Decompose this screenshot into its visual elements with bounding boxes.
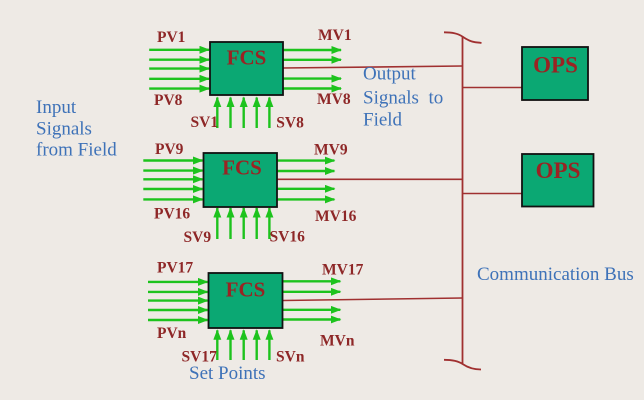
setpoint arrows SV17-SVn into FCS3 bottom — [217, 330, 269, 360]
setpoint arrows SV1-SV8 into FCS1 bottom — [217, 98, 269, 129]
output arrows MV9-MV16 from FCS2 — [277, 161, 334, 200]
svg-text:SV1: SV1 — [191, 114, 219, 131]
svg-text:Communication Bus: Communication Bus — [477, 264, 634, 285]
svg-text:MVn: MVn — [320, 333, 355, 350]
communication bus vertical line — [462, 36, 464, 364]
bus bottom terminator squiggle — [444, 360, 481, 370]
OPS box 1 — [522, 47, 588, 100]
svg-text:Signals: Signals — [36, 119, 92, 140]
output arrows MV1-MV8 from FCS1 — [283, 50, 341, 89]
svg-text:Signals to: Signals to — [363, 88, 443, 109]
note Input Signals from Field — [36, 97, 117, 161]
svg-text:MV9: MV9 — [314, 142, 348, 159]
svg-text:from Field: from Field — [36, 140, 117, 161]
svg-text:PV8: PV8 — [154, 92, 183, 109]
svg-text:SV9: SV9 — [184, 229, 212, 246]
svg-text:SV16: SV16 — [270, 229, 306, 246]
FCS box 1 — [210, 42, 283, 95]
input arrows PV1-PV8 into FCS1 — [149, 50, 209, 89]
output arrows MV17-MVn from FCS3 — [283, 281, 340, 319]
svg-text:SVn: SVn — [276, 349, 305, 366]
svg-text:PV16: PV16 — [154, 206, 190, 223]
svg-text:MV17: MV17 — [322, 262, 364, 279]
svg-text:SV8: SV8 — [276, 115, 304, 132]
svg-text:OPS: OPS — [533, 53, 578, 78]
svg-text:PV17: PV17 — [157, 260, 193, 277]
input arrows PV9-PV16 into FCS2 — [143, 161, 202, 200]
svg-text:PVn: PVn — [157, 325, 187, 342]
OPS box 2 — [522, 154, 594, 207]
wire FCS1 to bus — [282, 66, 463, 68]
FCS box 2 — [204, 153, 278, 207]
FCS box 3 — [209, 273, 283, 328]
svg-text:PV9: PV9 — [155, 141, 184, 158]
svg-text:FCS: FCS — [222, 156, 262, 180]
svg-text:MV1: MV1 — [318, 27, 352, 44]
wire FCS3 to bus — [283, 298, 463, 301]
svg-text:Input: Input — [36, 97, 77, 118]
note Output Signals to Field — [363, 64, 443, 131]
svg-text:MV8: MV8 — [317, 91, 351, 108]
svg-text:Output: Output — [363, 64, 417, 85]
svg-text:FCS: FCS — [227, 46, 267, 70]
wire FCS2 to bus — [276, 178, 463, 180]
setpoint arrows SV9-SV16 into FCS2 bottom — [217, 208, 269, 239]
svg-text:Set Points: Set Points — [189, 363, 266, 384]
wire bus to OPS1 — [463, 87, 523, 89]
input arrows PV17-PVn into FCS3 — [148, 282, 208, 320]
svg-text:PV1: PV1 — [157, 29, 185, 46]
svg-text:MV16: MV16 — [315, 208, 357, 225]
wire bus to OPS2 — [463, 193, 523, 195]
svg-text:FCS: FCS — [226, 278, 266, 302]
svg-text:Field: Field — [363, 110, 403, 131]
bus top terminator squiggle — [444, 32, 482, 43]
svg-text:OPS: OPS — [536, 158, 581, 183]
